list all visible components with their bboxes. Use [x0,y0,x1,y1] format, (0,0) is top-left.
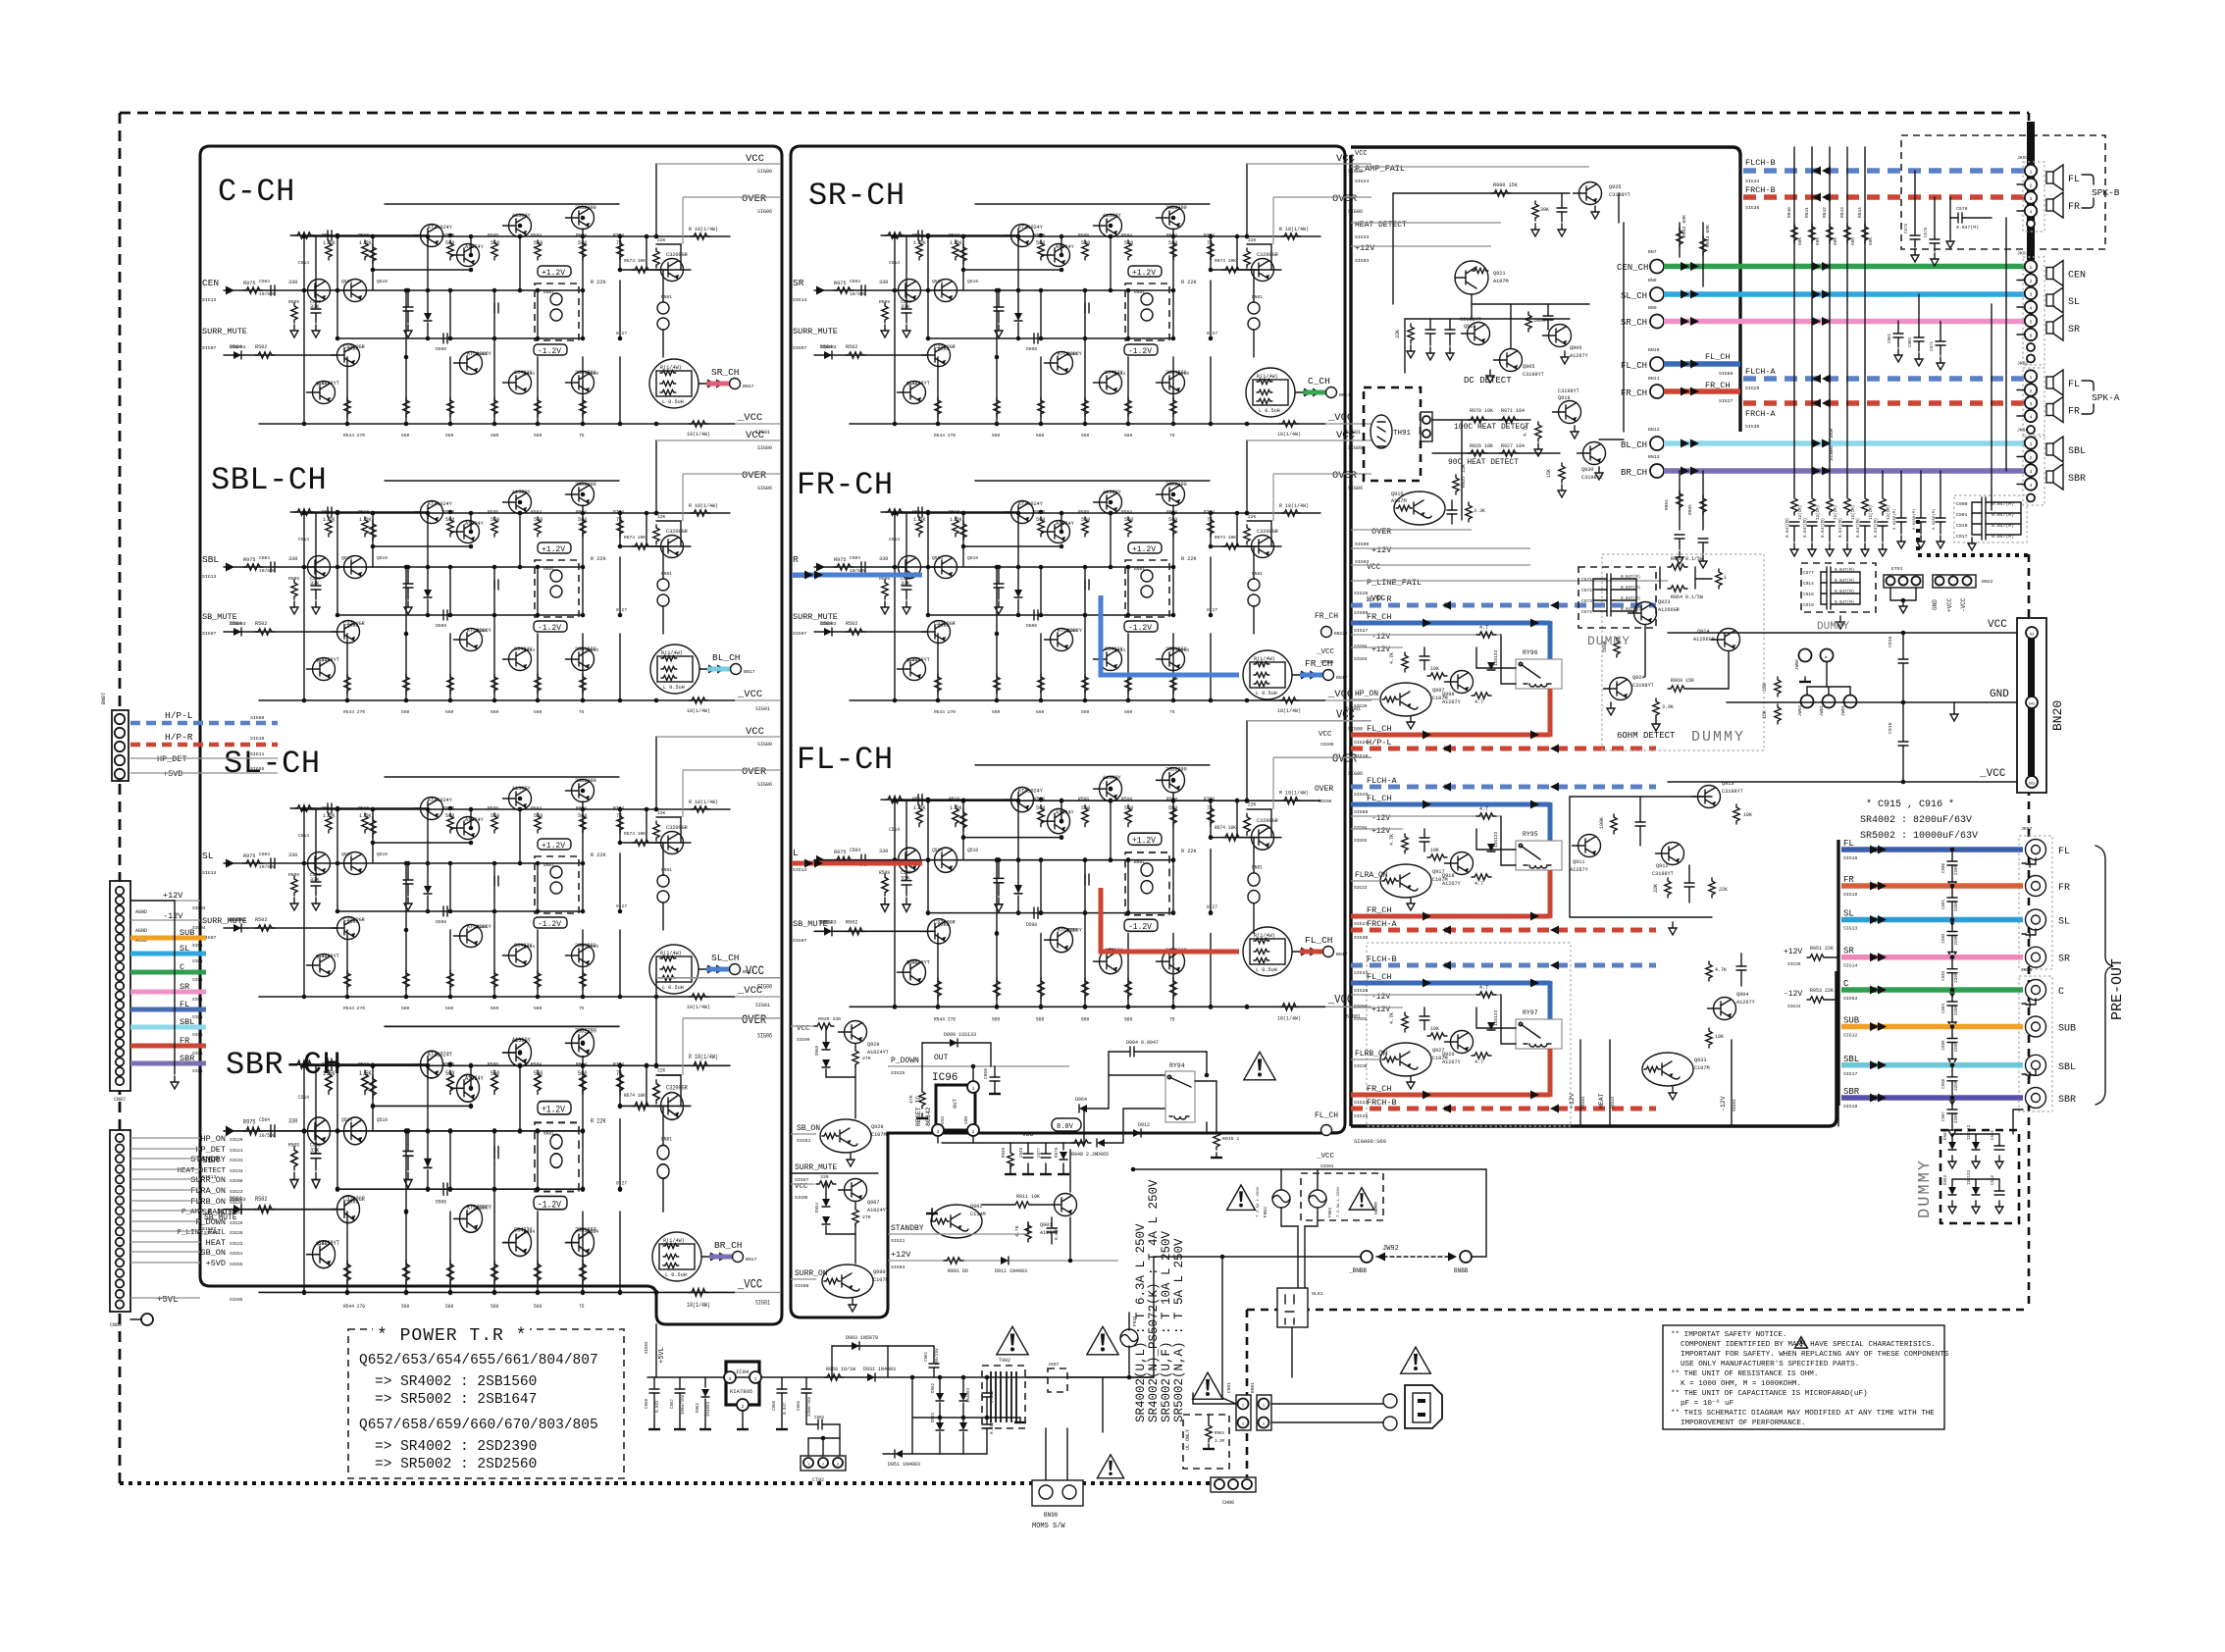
wire RY94 net [1108,1075,1110,1109]
svg-text:SBR: SBR [1843,1087,1860,1097]
svg-text:SIG21: SIG21 [230,1148,243,1154]
svg-text:C957: C957 [671,1398,675,1409]
svg-text:SBL: SBL [202,554,219,565]
ground bridge mid [1009,1417,1020,1419]
pin BN20 GND [2026,697,2038,708]
svg-text:SIG13: SIG13 [793,297,807,303]
diode D951 1N4003 [895,1450,903,1458]
svg-text:D965: D965 [1097,1152,1109,1158]
pin JK91-1 [2025,260,2037,272]
inductor output coil C-CH [649,359,741,408]
svg-text:BN12: BN12 [1648,427,1660,433]
capacitor C583 220P [1951,957,1953,969]
pin CN86-16 [116,1290,124,1298]
diode D964 1N4003 [1083,1109,1085,1143]
amplifier channel SR-CH [814,153,1371,439]
svg-text:SIG35: SIG35 [1787,961,1801,967]
svg-text:SIG00: SIG00 [795,1195,808,1201]
svg-text:R995: R995 [1687,504,1693,515]
pin CN87-10 [116,972,124,980]
svg-text:RY95: RY95 [1523,831,1538,838]
svg-text:SIG55: SIG55 [230,1262,243,1267]
svg-text:SIG34: SIG34 [1787,1004,1801,1009]
svg-text:D951 1N4003: D951 1N4003 [888,1462,920,1468]
svg-text:SB_MUTE: SB_MUTE [204,1213,237,1222]
svg-text:R942 68K: R942 68K [1682,215,1687,237]
svg-text:H/P-L: H/P-L [1367,738,1392,748]
pin CN87-9 [116,962,124,970]
wire mains run [1102,1377,1104,1432]
svg-text:R943: R943 [1839,207,1845,218]
pin CN87-13 [116,1001,124,1008]
svg-text:1N4003: 1N4003 [967,1387,971,1403]
svg-text:=> SR5002 : 2SB1647: => SR5002 : 2SB1647 [375,1392,537,1408]
svg-text:C903: C903 [814,1417,825,1420]
svg-text:D964: D964 [1075,1097,1087,1103]
pin CN86-10 [116,1227,124,1235]
resistor R 10K [1427,673,1447,679]
svg-text:BN11: BN11 [1648,376,1660,382]
svg-text:SR5002(U,F) : T 10A L 250V: SR5002(U,F) : T 10A L 250V [1160,1230,1173,1422]
svg-text:A1267Y: A1267Y [1442,699,1462,705]
wire transformer secondary to MOMS [1045,1428,1047,1480]
transistor Q930 C3198YT [1583,442,1606,465]
svg-text:2: 2 [2030,279,2033,284]
svg-text:+5VL: +5VL [658,1347,666,1364]
IC94 KIA7805 box [726,1362,759,1405]
svg-text:0.047(M): 0.047(M) [1621,575,1640,580]
pin JK93-1 [2025,165,2037,177]
svg-text:SIG1: SIG1 [192,943,203,949]
svg-text:4: 4 [2030,483,2033,489]
svg-text:D954: D954 [816,1202,820,1213]
svg-text:FR_CH: FR_CH [1705,381,1731,390]
svg-text:FRCH-B: FRCH-B [1745,185,1776,195]
net FRCH-A dashed red bus [1743,400,2026,406]
svg-text:C587: C587 [1942,1110,1946,1121]
pin CN86-13 [116,1259,124,1266]
diodes D561 row1 [1948,1142,1956,1150]
jumper W [1821,649,1834,662]
svg-text:4.7: 4.7 [1475,881,1483,887]
svg-text:F903: F903 [1329,1207,1333,1217]
net PRE-OUT SR colored wire [1841,955,2023,960]
ground transistor [1410,1076,1412,1082]
ground preout links [2022,858,2036,867]
svg-text:SR: SR [793,278,804,288]
page dashed border left [119,113,122,1483]
svg-text:68K: 68K [1797,237,1803,245]
page dotted border bottom [120,1481,1247,1485]
pin IC96-2 [967,1124,979,1136]
svg-text:SL-CH: SL-CH [224,746,321,782]
pin JK94-3 [2025,464,2037,476]
svg-text:2: 2 [2030,183,2033,189]
resistor R966 [1716,569,1722,589]
svg-text:8.0V: 8.0V [1057,1123,1074,1131]
resistor R927 184 [1499,450,1519,456]
pin IC96-3 [932,1124,944,1136]
connector BN90 MOMS switch [1032,1480,1083,1506]
transistor Q997 oval [1380,683,1431,716]
relay RY96 [1516,659,1562,689]
svg-text:0.047(M): 0.047(M) [1835,600,1854,605]
svg-text:JW90: JW90 [1794,659,1800,670]
svg-text:SIG23: SIG23 [1354,885,1368,891]
svg-text:4.7: 4.7 [1475,1059,1483,1065]
jumper JW90 [1799,649,1812,662]
svg-text:SIG06: SIG06 [1355,542,1370,547]
net FLCH-A blue dashed wire [1351,785,1656,790]
svg-text:10K: 10K [1715,1034,1724,1040]
resistor R 10K [1427,854,1447,860]
wire mains to plug [1271,1403,1383,1405]
dashed frame JK94 [2023,435,2044,505]
amplifier channel SL-CH [224,726,781,1011]
transistor Q901 A12877 [1055,1194,1077,1216]
speaker FR [2046,404,2053,416]
svg-text:FL_CH: FL_CH [1305,935,1333,946]
component OL91 [1277,1288,1308,1327]
resistor R 4.7K [1402,1012,1408,1032]
capacitor C587 220P [1951,1098,1953,1110]
pin CN86-3 [116,1155,124,1162]
resistor R933 10K [1706,1028,1712,1048]
wire FL_CH red input path [792,861,922,866]
wire q cluster [1472,303,1589,305]
svg-text:1SS133: 1SS133 [1493,831,1499,848]
svg-text:SIG22: SIG22 [1612,1096,1616,1109]
transistor Q933 C107M oval [1642,1053,1693,1086]
svg-text:L: L [793,848,799,858]
bus SIG000:S60 vertical left [1349,155,1352,1126]
svg-text:3: 3 [2030,196,2033,202]
svg-text:SR4002(U,L) : T 6.3A L 250V: SR4002(U,L) : T 6.3A L 250V [1134,1223,1148,1422]
svg-text:SIG34: SIG34 [1745,179,1760,184]
capacitor C970 [1425,329,1435,331]
svg-text:Q926: Q926 [1442,1052,1454,1058]
warning triangle mid1 [997,1326,1028,1355]
fuse F903 [1309,1190,1326,1208]
svg-text:SIG13: SIG13 [202,870,217,876]
svg-text:SBL: SBL [2068,446,2086,457]
capacitor C994 0.047 [1675,534,1684,536]
svg-text:1: 1 [2030,170,2033,176]
net FLCH-B dashed blue bus [1743,168,2026,174]
svg-text:SR: SR [1843,947,1854,956]
grounds DC detect [1410,345,1412,351]
pin CN86-17 [116,1300,124,1308]
svg-text:SR: SR [2068,325,2080,336]
svg-text:SPK-A: SPK-A [2092,392,2120,403]
svg-text:SIG33: SIG33 [1355,234,1370,240]
net SR colored wire [130,990,206,995]
IC96 box [936,1085,975,1130]
svg-text:OVER: OVER [1371,527,1391,537]
svg-text:2: 2 [2030,455,2033,461]
wire _VCC to BN20 [1668,781,2017,783]
dashed frame JK92 [2023,368,2044,437]
pin JK92-2 [2025,384,2037,395]
transistor Q911 A1267Y [1578,835,1601,857]
svg-text:GND: GND [1932,599,1939,610]
svg-text:0.022: 0.022 [656,1400,660,1413]
svg-text:C910: C910 [1956,523,1968,529]
pin +5VL circle [141,1314,153,1325]
net FRCH-A red dashed wire [1351,928,1656,933]
svg-text:D958: D958 [816,1045,820,1056]
svg-text:SR: SR [2058,955,2070,965]
resistor R925 15K [1559,463,1565,483]
svg-text:SIG1: SIG1 [192,1032,203,1038]
dashed frame JK91 [2023,257,2044,365]
connector RCA SR [2026,947,2046,967]
svg-text:A1267Y: A1267Y [1570,867,1589,873]
resistor R923 10K [1733,804,1739,824]
thick bar speaker mid [2027,235,2035,260]
connector BN87 headphone block [112,710,129,781]
amplifier block box 1 (C/SBL/SL/SBR channels) [200,146,782,1324]
svg-text:SB_MUTE: SB_MUTE [793,919,828,929]
svg-text:SIG03: SIG03 [1582,1096,1586,1109]
svg-text:Q987: Q987 [867,1200,879,1206]
capacitor C915 10000/63V [1898,658,1908,660]
capacitor C 0.001 [1420,655,1429,657]
caps C935/C936 0.022 [982,1392,992,1394]
svg-text:BN17: BN17 [1336,952,1348,957]
pin BN87-5 [115,714,125,724]
svg-text:C918: C918 [1803,592,1814,597]
svg-text:1SS133: 1SS133 [1968,1124,1972,1140]
svg-text:C572: C572 [1581,588,1592,594]
svg-text:FL: FL [1843,839,1854,849]
pin CN87-16 [116,1029,124,1037]
pin JK94 empty [2027,494,2035,502]
diode D 1SS133 [1487,844,1495,852]
svg-text:SIG24: SIG24 [1355,179,1370,184]
diode D962 1N4003 [704,1377,706,1387]
svg-text:+12V: +12V [1371,645,1390,654]
svg-text:VSS: VSS [940,1116,946,1124]
svg-text:JK98: JK98 [2021,967,2033,973]
net SUB colored wire [130,936,206,941]
svg-text:5: 5 [2030,320,2033,326]
svg-text:RY96: RY96 [1523,649,1538,656]
svg-text:SR_CH: SR_CH [1621,318,1647,328]
warning triangle F903 [1349,1188,1374,1211]
svg-text:PRE-OUT: PRE-OUT [2109,958,2126,1020]
svg-text:JW91: JW91 [1819,705,1825,716]
svg-text:JK93: JK93 [2017,155,2029,161]
svg-text:SIG13: SIG13 [793,867,807,873]
svg-text:SR-CH: SR-CH [808,178,906,214]
svg-text:4.7K: 4.7K [1715,967,1727,973]
svg-text:CT92: CT92 [812,1477,824,1483]
svg-text:SR4002 : 8200uF/63V: SR4002 : 8200uF/63V [1860,814,1972,826]
svg-text:C959: C959 [983,1068,989,1079]
resistor R953 22K [1709,878,1715,898]
svg-text:0.047(M): 0.047(M) [1874,518,1879,538]
svg-text:P_AMP_FAIL: P_AMP_FAIL [1355,164,1405,174]
svg-text:27K: 27K [862,1056,871,1061]
svg-text:HP_DET: HP_DET [195,1145,226,1155]
warning triangle mains plug [1401,1347,1431,1373]
pin BN87-1 [115,769,125,779]
resistor R977 15K [1775,677,1781,697]
transistor Q904 A1267Y [1714,998,1736,1020]
svg-text:SIG04: SIG04 [1354,825,1368,831]
connector RCA SBR [2026,1088,2046,1109]
svg-text:R944: R944 [1857,207,1863,218]
svg-text:3: 3 [2030,469,2033,475]
relay RY97 [1516,1019,1562,1049]
svg-text:DUMMY: DUMMY [1817,621,1849,633]
diodes D563 row2 [1948,1187,1956,1195]
pin CN86-1 [116,1134,124,1142]
svg-text:FL_CH: FL_CH [1315,1111,1338,1120]
svg-text:12(1M): 12(1M) [1851,505,1856,520]
transistor Q919 C3198YT [1559,401,1581,424]
svg-text:BN17: BN17 [746,1257,757,1263]
svg-text:SIG08: SIG08 [230,1178,243,1184]
svg-text:SL: SL [180,944,189,954]
svg-text:SIG12: SIG12 [1843,1033,1858,1039]
svg-text:100K: 100K [1533,318,1545,324]
svg-text:SIG03: SIG03 [1354,1016,1368,1022]
transistor Q927 oval [1380,1043,1431,1076]
svg-text:100/25V: 100/25V [935,1348,940,1366]
ground C994 [1679,551,1681,557]
svg-text:SIG25: SIG25 [891,1070,906,1076]
svg-text:SURR_MUTE: SURR_MUTE [202,916,247,926]
svg-text:HP_ON: HP_ON [1355,690,1378,698]
pin JK93-2 [2025,179,2037,190]
ground Q905 [1489,370,1491,376]
svg-text:SIG51: SIG51 [797,1138,811,1144]
svg-text:Q998: Q998 [1442,692,1454,697]
svg-text:SL: SL [2068,297,2080,308]
svg-text:4: 4 [2030,210,2033,216]
svg-text:220P: 220P [1955,1042,1959,1053]
transistor Q913 C3198YT [1698,786,1721,808]
svg-text:27K: 27K [862,1214,871,1220]
diode D903 1N5878 upper [832,1345,888,1347]
resistor R936 [1466,502,1472,522]
diode D911 1N4003 [1001,1257,1009,1265]
page dashed border bottom-right vertical jog [1246,1310,1249,1483]
svg-text:SBR: SBR [2058,1095,2076,1106]
svg-text:+5VD: +5VD [163,769,182,779]
capacitor C916 10000/63V [1898,741,1908,743]
resistor R981 D6 [944,1258,963,1264]
svg-text:4.7: 4.7 [1475,699,1483,705]
transistor Q902 C114M oval [931,1205,982,1238]
svg-text:+12V: +12V [1784,948,1802,956]
svg-text:SIG13: SIG13 [202,574,217,580]
svg-text:SIG13: SIG13 [1843,926,1858,932]
svg-text:1SS133: 1SS133 [1968,1169,1972,1185]
svg-text:0.047(M): 0.047(M) [1821,518,1826,538]
pin BN87-4 [115,728,125,738]
svg-text:_VCC: _VCC [1366,594,1385,603]
pin CN87-6 [116,934,124,942]
svg-text:C971: C971 [1931,340,1935,351]
capacitor C 0.001 [1420,837,1429,839]
inductor output coil SR-CH [1246,368,1337,417]
page dashed border right lower [2028,554,2031,1310]
svg-text:3: 3 [2030,401,2033,407]
svg-text:+12V: +12V [1371,827,1390,836]
resistor R 4.7 upper [1476,992,1496,998]
svg-text:CEN: CEN [202,278,219,288]
ground CN87 [174,1076,176,1082]
svg-text:JS07: JS07 [1048,1362,1060,1368]
svg-text:12(1M): 12(1M) [1834,505,1838,520]
transistor Q918 [1451,852,1474,875]
svg-text:-12V: -12V [1371,814,1390,823]
capacitor C959 0.1 [994,1066,996,1077]
net PRE-OUT SUB colored wire [1841,1024,2023,1030]
svg-text:SBL: SBL [1843,1055,1859,1064]
box safety notice [1663,1325,1944,1429]
svg-text:IMPORTANT FOR SAFETY. WHEN REP: IMPORTANT FOR SAFETY. WHEN REPLACING ANY… [1681,1351,1949,1359]
capacitor C961 100/25V [933,1346,935,1364]
svg-text:BL_CH: BL_CH [1621,440,1647,450]
resistor R979 [1532,201,1538,221]
svg-text:D561: D561 [1944,1129,1948,1140]
svg-text:C_CH: C_CH [1308,376,1330,387]
thick bar speaker top [2027,122,2035,259]
svg-text:SIG1: SIG1 [192,1068,203,1074]
svg-text:SIG04: SIG04 [1733,1099,1737,1111]
dashed box UL ONLY [1183,1415,1229,1469]
svg-text:Q657/658/659/660/670/803/805: Q657/658/659/660/670/803/805 [359,1418,598,1433]
svg-text:SIG55: SIG55 [250,766,265,772]
svg-text:R994: R994 [1664,499,1670,510]
amplifier channel SBL-CH [224,430,781,715]
wire dummy box feeds [2012,1110,2014,1134]
resistor R995 12(1M) [1702,471,1704,530]
net PRE-OUT C colored wire [1841,987,2023,993]
svg-text:BN17: BN17 [1339,392,1351,398]
warning triangle F902 [1227,1185,1256,1211]
pin JK91-5 [2025,315,2037,327]
capacitor C971 0.0056 [1940,322,1941,342]
svg-text:0.047(M): 0.047(M) [1835,590,1854,594]
svg-text:AGND: AGND [135,928,147,934]
capacitor C576 0.047 [1949,197,1951,218]
capacitor C584 220P [1951,990,1953,1002]
transistor Q914 A1266GR [1718,629,1740,651]
svg-text:A1267Y: A1267Y [1442,881,1462,887]
svg-text:FLCH-B: FLCH-B [1745,158,1776,168]
svg-text:Q933: Q933 [1694,1058,1706,1063]
transformer T902 [982,1366,1025,1428]
pin JK91-6 [2025,329,2037,340]
svg-text:C3198YT: C3198YT [1558,388,1579,394]
net SL colored wire [130,952,206,956]
pin CN87-19 [116,1058,124,1065]
wire FR_CH blue internal path [1101,595,1239,675]
pin CN87-20 [116,1067,124,1075]
diodes D958/D959 1SS133 [822,1042,830,1050]
svg-text:SIG88: SIG88 [1719,371,1733,377]
thermistor TH91 dashed box [1364,387,1421,481]
svg-text:Q912: Q912 [1656,863,1668,869]
svg-text:SIG16: SIG16 [1843,855,1858,861]
transistor Q921 A107M darlington [1455,261,1488,294]
capacitor C 0.001 [1420,1015,1429,1017]
